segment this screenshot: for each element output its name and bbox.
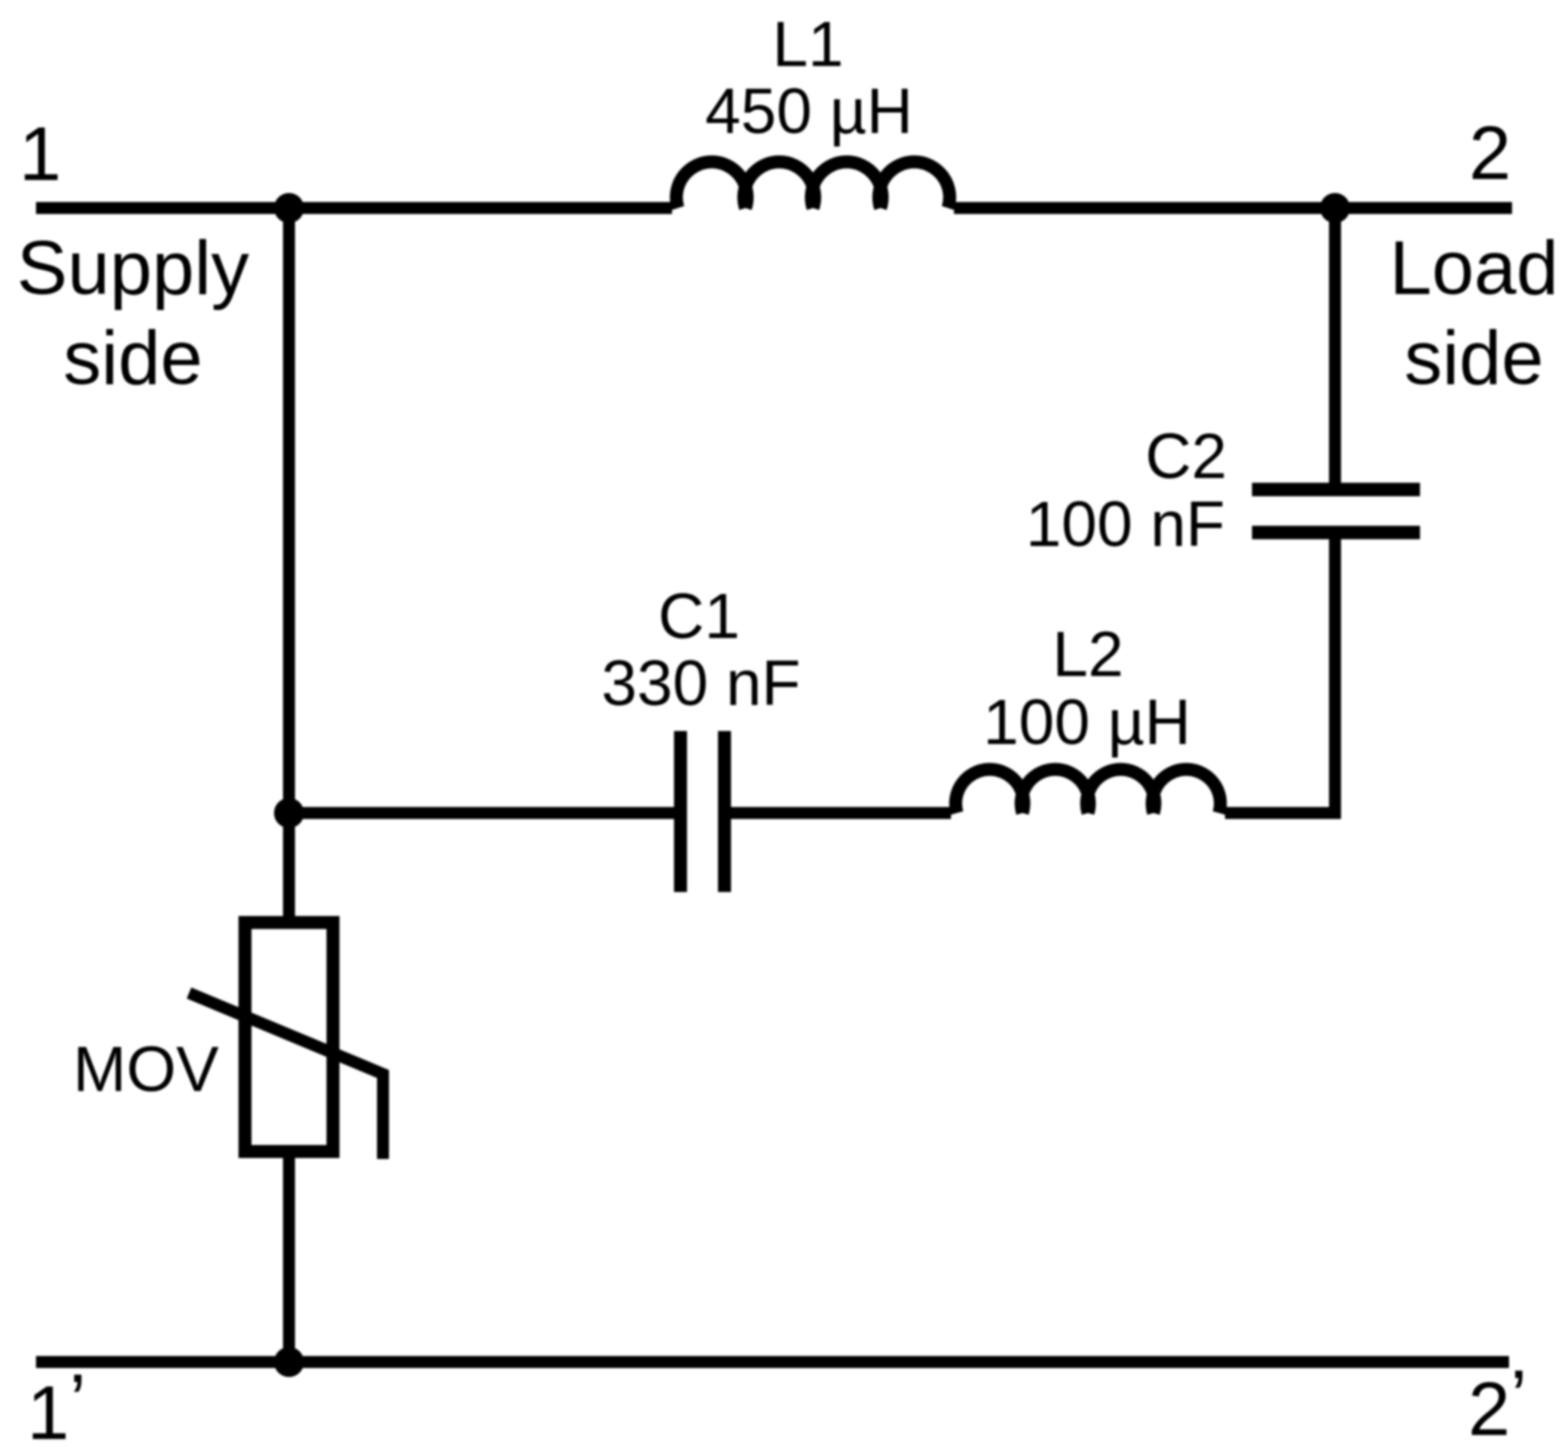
svg-text:100 µH: 100 µH [983, 686, 1191, 758]
wire right vertical: node 2 down to C2 [1329, 208, 1341, 484]
node junction dot middle left [274, 798, 304, 828]
varistor MOV body [245, 923, 333, 1152]
wire middle node down to MOV [283, 813, 295, 922]
svg-text:330 nF: 330 nF [601, 647, 800, 719]
svg-text:L2: L2 [1052, 618, 1123, 690]
capacitor C2 [1252, 490, 1420, 533]
svg-text:C1: C1 [658, 580, 740, 652]
wire top left: terminal 1 to L1 [36, 202, 672, 214]
svg-text:2’: 2’ [1468, 1355, 1527, 1450]
svg-text:side: side [1404, 316, 1543, 401]
wire MOV down to bottom rail [283, 1152, 295, 1362]
wire middle left: node to C1 [289, 807, 675, 819]
wire bottom rail 1' to 2' [36, 1356, 1509, 1368]
node junction dot top right [1320, 193, 1350, 223]
svg-text:L1: L1 [772, 8, 843, 80]
node junction dot top left [274, 193, 304, 223]
svg-text:MOV: MOV [73, 1033, 219, 1105]
svg-text:2: 2 [1469, 111, 1511, 196]
node junction dot bottom [274, 1347, 304, 1377]
svg-text:Supply: Supply [17, 226, 249, 311]
svg-text:Load: Load [1389, 226, 1558, 311]
wire left vertical: node 1 down to middle node [283, 208, 295, 813]
inductor L2 [956, 769, 1221, 813]
svg-text:C2: C2 [1145, 420, 1227, 492]
svg-text:1’: 1’ [27, 1359, 86, 1450]
wire C1 to L2 [730, 807, 951, 819]
inductor L1 [676, 162, 949, 208]
capacitor C1 [681, 731, 725, 892]
wire C2 to middle rail corner [1225, 539, 1335, 813]
varistor MOV diagonal stroke [189, 993, 383, 1159]
svg-text:side: side [63, 316, 202, 401]
svg-text:450 µH: 450 µH [705, 75, 913, 147]
svg-text:1: 1 [19, 112, 61, 197]
svg-text:100 nF: 100 nF [1026, 488, 1225, 560]
wire top right: L1 to terminal 2 [954, 202, 1512, 214]
